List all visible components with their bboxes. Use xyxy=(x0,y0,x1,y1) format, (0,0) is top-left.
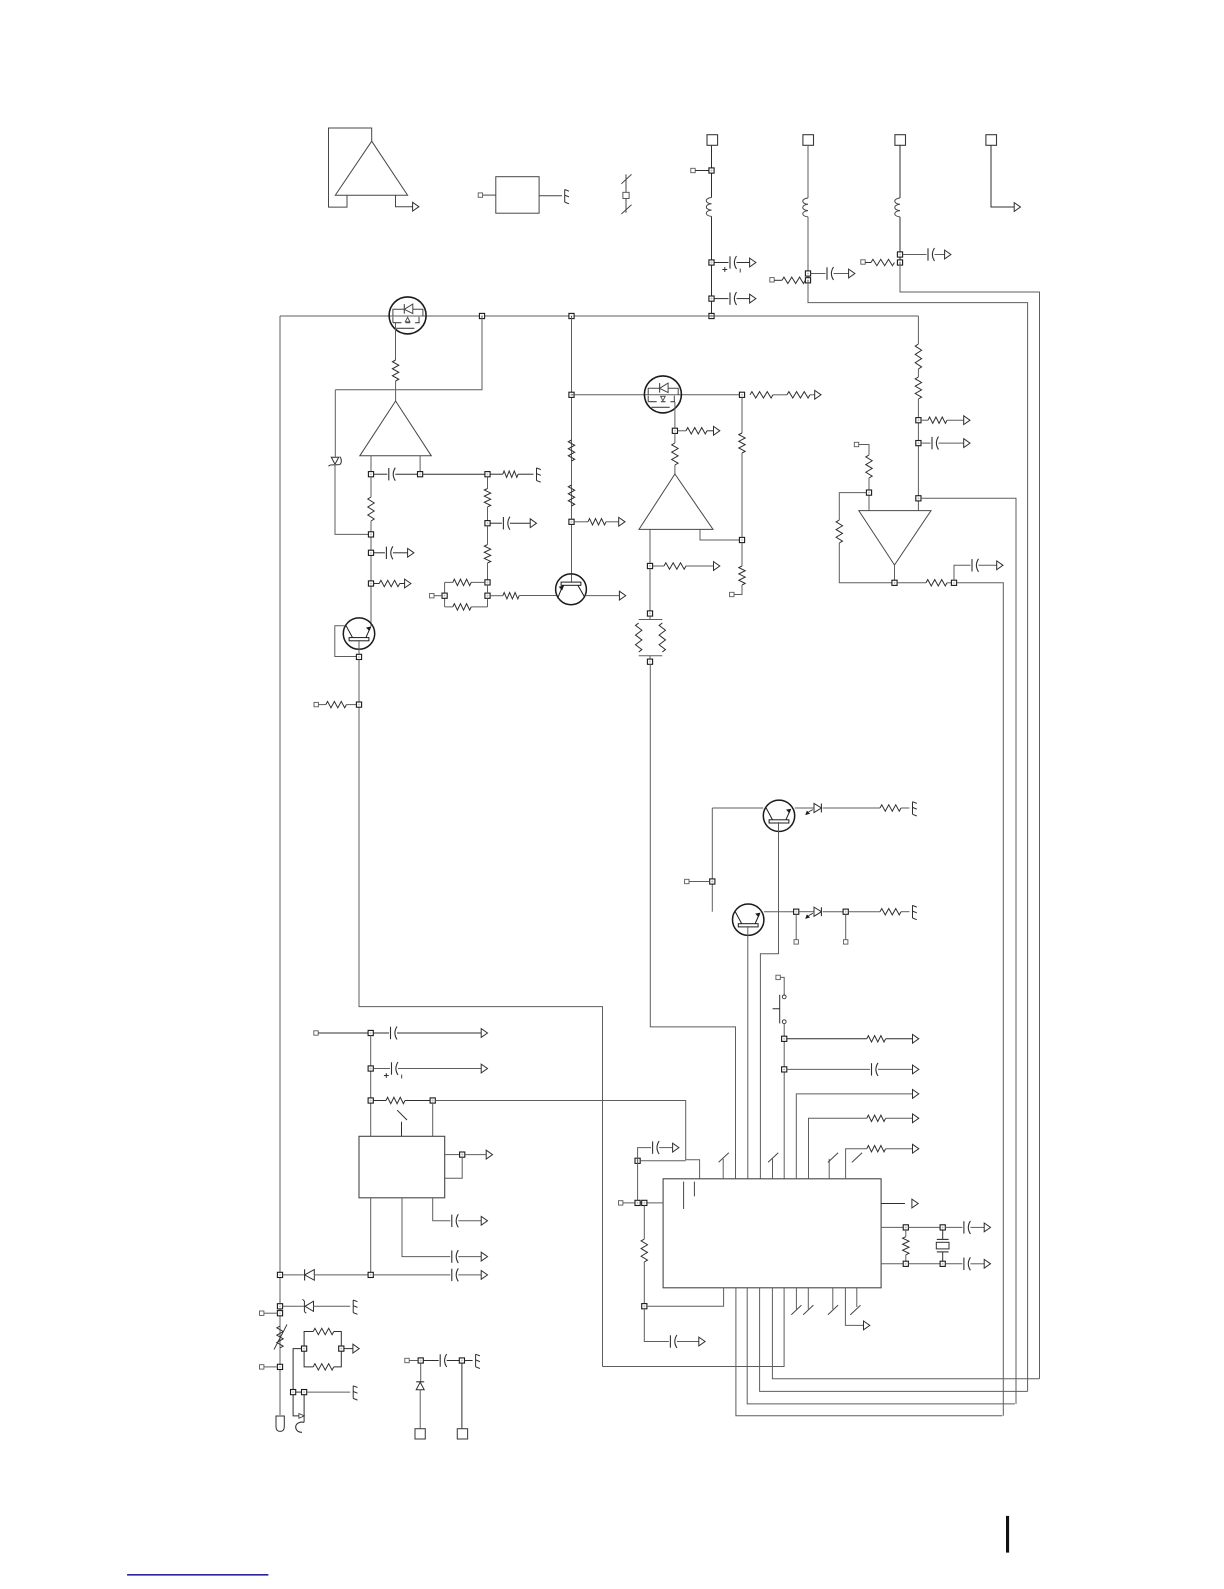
arrow U2 right off-page xyxy=(912,1199,918,1208)
wire U2 bottom pin f xyxy=(845,1288,863,1326)
wire A3 minus stub xyxy=(649,529,651,563)
wire R13 to arrow xyxy=(810,394,815,396)
junction U1 node d xyxy=(430,1098,435,1103)
pushbutton SW1 xyxy=(773,995,787,1024)
arrow U1 off-page xyxy=(486,1150,492,1159)
wire to C10 xyxy=(373,1032,389,1034)
wire C20 to arrow xyxy=(510,522,530,524)
module U3 box xyxy=(496,177,539,214)
wire R14 to arrow xyxy=(707,430,714,432)
wire to R8 xyxy=(574,521,588,523)
wire C19 to arrow xyxy=(970,1263,984,1265)
wire R20 to pin xyxy=(734,585,742,595)
wire C16 to arrow xyxy=(659,1147,673,1149)
arrow C10 off-page xyxy=(481,1029,487,1038)
wire node N to bus xyxy=(957,583,1004,1416)
arrow C14 off-page xyxy=(481,1271,487,1280)
junction A2 node R xyxy=(418,472,423,477)
connector pin P11 xyxy=(776,975,780,979)
wire node e to arrow xyxy=(465,1154,486,1156)
wire L2 down xyxy=(807,217,809,281)
connector pin P1 xyxy=(478,193,482,197)
wire R8 to arrow xyxy=(606,521,619,523)
junction A2 node L xyxy=(368,472,373,477)
junction link node b xyxy=(302,1390,307,1395)
U2 bottom NC pin 1 xyxy=(791,1288,801,1315)
wire R26 to arrow xyxy=(947,419,964,421)
U2 pin1 marks xyxy=(684,1182,695,1209)
junction U1 node c xyxy=(368,1098,373,1103)
wire U2 right pin3 xyxy=(881,1263,903,1265)
wire R25 down xyxy=(917,399,919,511)
resistor R7 xyxy=(568,485,574,506)
U2 bottom NC pin 2 xyxy=(803,1288,813,1315)
capacitor C4 xyxy=(928,248,935,261)
resistor R21 xyxy=(866,455,872,478)
junction xtal node d xyxy=(940,1261,945,1266)
capacitor C19 xyxy=(964,1257,971,1270)
arrow C11 off-page xyxy=(481,1064,487,1073)
wire to C4 xyxy=(903,254,927,256)
connector pin P16 xyxy=(619,1201,623,1205)
wire U2 bottom pin e xyxy=(603,1288,785,1367)
resistor R22 xyxy=(836,520,842,543)
junction node O xyxy=(916,418,921,423)
wire C2 to arrow xyxy=(737,298,750,300)
resistor R20 xyxy=(739,566,745,585)
zener diode D1 xyxy=(329,457,342,467)
connector J2 xyxy=(803,135,814,146)
wire D4 to node xyxy=(314,1274,368,1276)
wire P2 to J1 net xyxy=(695,170,709,172)
wire node b to R28 xyxy=(848,911,880,913)
junction node G xyxy=(569,519,574,524)
wire node b to T2 xyxy=(461,1363,463,1429)
wire C7 to arrow xyxy=(979,564,997,566)
junction U2L node b xyxy=(642,1200,647,1205)
resistor R29 xyxy=(867,1036,886,1042)
wire R5 to E2 xyxy=(518,473,533,475)
wire Q1 emitter xyxy=(358,641,360,654)
wire P7 to R21 xyxy=(859,445,869,456)
wire Q3 collector row xyxy=(795,807,814,809)
wire SW1 down xyxy=(783,1024,785,1179)
connector E2 xyxy=(537,468,541,482)
junction Q4 node a xyxy=(794,909,799,914)
wire to C1 xyxy=(714,262,728,264)
wire to C9 xyxy=(787,1068,870,1070)
resistor R38 xyxy=(484,545,490,563)
IC U2 box xyxy=(663,1179,881,1288)
junction xtal node b xyxy=(940,1225,945,1230)
junction rail node A xyxy=(479,313,484,318)
connector E3 xyxy=(913,802,917,816)
resistor R30 xyxy=(386,1097,405,1103)
junction U1 node b xyxy=(368,1066,373,1071)
junction bc node b xyxy=(459,1358,464,1363)
wire to C15 xyxy=(423,1360,438,1362)
resistor R2 xyxy=(368,497,374,521)
wire R22 to out xyxy=(839,543,892,583)
connector pin P6 xyxy=(730,592,734,596)
wire A2 plus stub xyxy=(419,456,421,472)
wire C13 to arrow xyxy=(458,1220,481,1222)
arrow Q2 off-page xyxy=(619,591,625,600)
arrow R29 off-page xyxy=(913,1034,919,1043)
junction U2L node c xyxy=(635,1158,640,1163)
capacitor C5 xyxy=(389,468,396,481)
parallel resistors R39 R40 xyxy=(445,579,488,610)
capacitor C12 xyxy=(452,1250,459,1263)
connector pin P7 xyxy=(854,442,858,446)
wire P8 to rail xyxy=(689,881,710,883)
wire pr left link xyxy=(293,1349,301,1390)
wire U2 right pin1 xyxy=(881,1203,905,1205)
junction node M xyxy=(739,537,744,542)
junction node K top xyxy=(647,611,652,616)
wire rail to D4 xyxy=(283,1274,304,1276)
junction node H xyxy=(739,392,744,397)
wire R41 to Q2 xyxy=(519,595,556,597)
wire J2 down xyxy=(807,145,809,198)
resistor R34 xyxy=(867,1115,886,1121)
wire Q6 row xyxy=(572,394,743,396)
wire to R3 xyxy=(374,583,380,585)
transistor Q3 xyxy=(763,800,794,831)
junction node VCC1a xyxy=(709,260,714,265)
wire Q2 out xyxy=(585,595,619,597)
wire to C2 xyxy=(714,298,728,300)
arrow C19 off-page xyxy=(984,1259,990,1268)
wire C5 to node xyxy=(395,473,417,475)
transistor Q2 xyxy=(556,574,587,605)
connector pin P12 xyxy=(314,1031,318,1035)
resistor R33 xyxy=(641,1239,647,1262)
jack J5 tip xyxy=(293,1395,304,1419)
zener diode D5 xyxy=(303,1299,314,1313)
wire U3 to connector E1 xyxy=(539,195,562,197)
junction bottom node xyxy=(368,1272,373,1277)
resistor R11 xyxy=(871,259,894,265)
transistor Q6 photomos xyxy=(644,376,681,413)
wire R35 to arrow xyxy=(886,1148,913,1150)
arrow C6 off-page xyxy=(408,548,414,557)
parallel resistors R31 R32 xyxy=(304,1328,341,1370)
connector E4 xyxy=(913,905,917,919)
wire pr to arrow xyxy=(344,1348,353,1350)
capacitor C8 xyxy=(932,437,939,450)
wire b to C18 xyxy=(945,1226,962,1228)
diode D4 xyxy=(305,1269,315,1280)
wire A4 feedback xyxy=(839,493,866,520)
wire U2 bottom pin b xyxy=(747,1288,1015,1404)
wire node b stub xyxy=(845,914,847,939)
page mark bar xyxy=(1006,1516,1009,1553)
arrow Q6 row off-page xyxy=(815,390,821,399)
capacitor C16 xyxy=(653,1141,660,1154)
connector pin P10 xyxy=(844,940,848,944)
wire U2 bottom pin c xyxy=(760,1288,1028,1392)
connector pin P3 xyxy=(770,278,774,282)
wire node d to U1 xyxy=(432,1103,434,1136)
junction J1 on main rail xyxy=(709,313,714,318)
wire D6 to T1 xyxy=(419,1390,421,1429)
junction U2L node a xyxy=(635,1200,640,1205)
wire zener chain xyxy=(335,390,368,535)
wire Q6 drain down xyxy=(674,402,676,428)
wire R28 to E4 xyxy=(901,911,910,913)
wire Q4 collector row xyxy=(764,911,794,913)
wire C10 to arrow xyxy=(397,1032,481,1034)
wire P4 to R11 xyxy=(865,262,871,264)
connector pin P4 xyxy=(861,260,865,264)
wire U2 pin to row3 xyxy=(846,1149,867,1179)
wire P11 to SW1 xyxy=(780,977,784,995)
wire to R26 xyxy=(921,419,928,421)
diode D6 xyxy=(416,1382,424,1390)
wire C9 to arrow xyxy=(878,1068,913,1070)
resistor R16 xyxy=(664,563,686,569)
wire C1 to arrow xyxy=(737,262,750,264)
wire to C3 xyxy=(811,273,826,275)
wire R2 ends xyxy=(370,477,372,627)
connector E5 xyxy=(353,1300,357,1314)
junction SW1 node b xyxy=(782,1067,787,1072)
resistor R26 xyxy=(928,417,947,423)
junction node VCC1b xyxy=(709,296,714,301)
arrow A1 output off-page xyxy=(413,202,419,211)
wire rail to D5 xyxy=(283,1305,304,1307)
junction pp node c xyxy=(442,593,447,598)
wire M to R20 xyxy=(741,543,743,566)
wire Q3 emitter xyxy=(760,822,778,1179)
junction rail node z xyxy=(277,1364,282,1369)
junction node I xyxy=(672,428,677,433)
junction pr node R xyxy=(339,1346,344,1351)
wire Q1 base loop xyxy=(335,626,357,657)
connector pin P17 xyxy=(430,594,434,598)
wire to R29 xyxy=(787,1038,867,1040)
junction rail node x xyxy=(277,1304,282,1309)
wire H to M chain xyxy=(741,397,743,433)
inductor L1 xyxy=(706,198,711,217)
op-amp A3 triangle xyxy=(639,474,713,529)
junction J1 net xyxy=(709,168,714,173)
wire R3 to arrow xyxy=(400,583,405,585)
wire R36 ends xyxy=(905,1230,907,1261)
arrow R26 off-page xyxy=(964,416,970,425)
junction U2L node d xyxy=(642,1304,647,1309)
wire C8 to arrow xyxy=(939,442,964,444)
resistor R35 xyxy=(867,1146,886,1152)
junction J2b xyxy=(805,278,810,283)
U2 top NC pin 3 xyxy=(828,1153,838,1179)
junction J2a xyxy=(805,271,810,276)
capacitor C9 xyxy=(872,1063,879,1076)
wire P16 to U2 xyxy=(623,1202,663,1204)
connector pin P2 xyxy=(691,168,695,172)
resistor R12 xyxy=(750,392,773,398)
wire R4 to node xyxy=(346,704,356,706)
capacitor C1 polarized xyxy=(722,256,740,273)
wire node d down xyxy=(644,1309,669,1342)
parallel resistors R17 R18 xyxy=(636,616,666,659)
connector E1 xyxy=(565,190,569,204)
wire C12 to arrow xyxy=(458,1256,481,1258)
wire P1 to U3 xyxy=(483,194,496,196)
resistor R25 xyxy=(915,377,921,399)
wire R33 to node d xyxy=(643,1262,645,1304)
wire Q3 base row xyxy=(712,807,763,809)
resistor R24 xyxy=(915,344,921,369)
wire R15 ends xyxy=(674,433,676,474)
wire J2 net to bus xyxy=(808,280,1028,1391)
footer rule xyxy=(127,1574,268,1576)
connector pin P14 xyxy=(260,1365,264,1369)
inductor L2 xyxy=(803,198,808,217)
wire node N up cap xyxy=(954,565,971,580)
capacitor C10 xyxy=(391,1027,398,1040)
arrow R3 off-page xyxy=(405,579,411,588)
wire J3 down xyxy=(899,145,901,198)
op-amp A1 power amplifier block outline xyxy=(329,128,372,207)
junction node D xyxy=(368,550,373,555)
junction rail node B xyxy=(569,313,574,318)
arrow row1 off-page xyxy=(913,1090,919,1099)
wire c to d xyxy=(908,1263,940,1265)
wire node K to U2 xyxy=(650,664,735,1179)
junction pp node b xyxy=(485,593,490,598)
arrow row2 off-page xyxy=(913,1114,919,1123)
wire node R to node S xyxy=(423,473,485,475)
wire C4 to arrow xyxy=(935,254,945,256)
wire node Q to bus xyxy=(921,498,1016,1404)
wire to R16 xyxy=(653,565,664,567)
connector E6 xyxy=(353,1386,357,1400)
junction A4 out node xyxy=(892,580,897,585)
wire A1 output stub xyxy=(396,195,413,207)
arrow pin f off-page xyxy=(864,1321,870,1330)
wire R29 to arrow xyxy=(886,1038,913,1040)
arrow C8 off-page xyxy=(964,439,970,448)
junction J3a xyxy=(897,252,902,257)
arrow pr off-page xyxy=(353,1344,359,1353)
wire node d loop to U2 xyxy=(647,1288,724,1306)
arrow C16 off-page xyxy=(673,1143,679,1152)
connector J1 xyxy=(707,135,718,146)
wire P3 to R10 xyxy=(774,279,782,281)
junction left rail node xyxy=(277,1272,282,1277)
junction node K bottom xyxy=(647,659,652,664)
resistor R3 xyxy=(379,580,400,586)
junction node C xyxy=(368,532,373,537)
wire main rail xyxy=(280,315,918,317)
capacitor C3 xyxy=(827,267,834,280)
junction xtal node c xyxy=(903,1261,908,1266)
junction node S2 xyxy=(485,521,490,526)
IC U1 box xyxy=(359,1136,445,1198)
capacitor C11 polarized xyxy=(384,1062,402,1079)
terminal T2 xyxy=(457,1429,467,1439)
wire R34 to arrow xyxy=(886,1117,913,1119)
resistor R8 xyxy=(588,519,606,525)
arrow C17 off-page xyxy=(699,1337,705,1346)
inductor L3 xyxy=(895,198,900,217)
junction J3b xyxy=(897,260,902,265)
arrow C1 off-page xyxy=(750,258,756,267)
op-amp A1 triangle xyxy=(335,141,407,195)
op-amp A2 triangle xyxy=(360,401,432,456)
resistor R36 xyxy=(903,1237,909,1255)
wire node b to E7 xyxy=(465,1360,473,1362)
wire R30 to node d xyxy=(405,1100,430,1102)
wire L1 down xyxy=(711,216,713,316)
wire left rail xyxy=(279,316,281,1415)
wire C17 to arrow xyxy=(677,1341,699,1343)
trimmer arrow U1 xyxy=(397,1110,407,1136)
junction node N xyxy=(951,580,956,585)
wire L3 down xyxy=(899,217,901,263)
junction Q4 node b xyxy=(843,909,848,914)
resistor R37 xyxy=(484,489,490,507)
wire node a to D6 xyxy=(420,1363,422,1382)
arrow row3 off-page xyxy=(913,1144,919,1153)
wire U2 right pin2 xyxy=(881,1226,903,1228)
junction link node a xyxy=(291,1390,296,1395)
wire C18 to arrow xyxy=(970,1226,984,1228)
wire a to b xyxy=(908,1226,940,1228)
junction U1 node a xyxy=(368,1030,373,1035)
connector pin P5 xyxy=(314,702,318,706)
junction base rail xyxy=(710,879,715,884)
arrow C2 off-page xyxy=(750,294,756,303)
wire P14 to rail xyxy=(264,1366,278,1368)
junction node F xyxy=(569,392,574,397)
crystal X1 xyxy=(936,1230,949,1261)
fuse F1 xyxy=(621,174,631,214)
thermistor RT1 xyxy=(274,1325,287,1350)
wire P17 to node c xyxy=(434,595,442,597)
wire R38 ends xyxy=(487,526,489,580)
wire R24-R25 xyxy=(917,369,919,377)
junction node J xyxy=(647,563,652,568)
resistor R13 xyxy=(787,392,810,398)
wire U2 bottom pin a xyxy=(736,1288,1002,1416)
junction R4 node xyxy=(356,702,361,707)
resistor R23 xyxy=(926,580,947,586)
wire R16 to arrow xyxy=(686,565,714,567)
wire A4 out xyxy=(894,565,896,580)
wire node d to U2 top xyxy=(435,1101,699,1179)
resistor R14 xyxy=(686,428,707,434)
wire to R14 xyxy=(678,430,687,432)
wire D2 to R27 xyxy=(823,807,880,809)
capacitor C20 xyxy=(503,517,510,530)
wire D5 to E5 xyxy=(314,1305,351,1307)
wire A2 minus stub xyxy=(370,456,372,472)
op-amp A4 triangle xyxy=(859,511,931,565)
wire P12 to node xyxy=(318,1032,368,1034)
wire to C6 xyxy=(374,552,385,554)
junction pr node L xyxy=(302,1346,307,1351)
wire link to E6 xyxy=(307,1391,351,1393)
wire R27 to E3 xyxy=(901,807,910,809)
wire A4 out to R23 xyxy=(897,582,926,584)
resistor R6 xyxy=(568,440,574,461)
wire C6 to arrow xyxy=(393,552,408,554)
wire J1 down xyxy=(711,145,713,197)
wire U2 pin to row2 xyxy=(809,1118,867,1179)
